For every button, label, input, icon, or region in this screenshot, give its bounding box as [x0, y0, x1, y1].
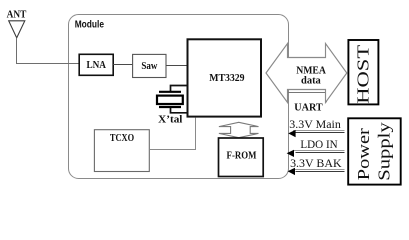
UART shadow box lines: [288, 93, 327, 103]
svg-text:3.3V BAK: 3.3V BAK: [290, 156, 342, 170]
svg-text:Power: Power: [354, 128, 373, 180]
crystal bottom plate: [159, 106, 181, 108]
wire TCXO to MT3329: [149, 118, 195, 150]
amplifier LNA box: [79, 54, 113, 75]
HOST box: [348, 40, 378, 104]
wire Saw to MT3329: [166, 65, 188, 67]
svg-text:MT3329: MT3329: [209, 72, 245, 84]
svg-text:TCXO: TCXO: [110, 133, 134, 144]
net 3.3V Main wire: [293, 130, 345, 132]
IC MT3329 box: [188, 39, 262, 116]
svg-text:LDO IN: LDO IN: [300, 137, 338, 151]
svg-text:Module: Module: [75, 20, 105, 31]
svg-text:F-ROM: F-ROM: [227, 151, 257, 162]
LDO IN arrowhead: [287, 150, 294, 157]
svg-text:Saw: Saw: [141, 61, 158, 72]
crystal top plate: [159, 91, 181, 93]
svg-text:X’tal: X’tal: [158, 115, 182, 126]
module outline: [69, 15, 289, 179]
SAW filter box: [133, 54, 166, 77]
svg-text:ANT: ANT: [7, 9, 27, 20]
Power Supply box: [348, 118, 401, 184]
3.3V Main arrowhead: [288, 130, 295, 137]
antenna symbol: [9, 21, 25, 38]
svg-text:data: data: [301, 75, 322, 86]
svg-text:3.3V Main: 3.3V Main: [289, 117, 341, 131]
bus arrow MT3329 to F-ROM: [219, 122, 259, 137]
svg-text:HOST: HOST: [353, 44, 372, 104]
net 3.3V BAK wire: [293, 169, 345, 171]
3.3V BAK arrowhead: [288, 168, 295, 175]
wire antenna to LNA: [17, 38, 80, 64]
crystal body: [157, 96, 183, 104]
svg-text:UART: UART: [294, 102, 323, 114]
bus arrow NMEA data module to HOST: [266, 44, 347, 103]
wire LNA to Saw: [113, 64, 132, 66]
oscillator TCXO box: [94, 130, 149, 172]
svg-text:LNA: LNA: [86, 60, 106, 71]
svg-text:Supply: Supply: [374, 122, 393, 181]
memory F-ROM box: [219, 138, 264, 177]
net LDO IN wire: [293, 150, 345, 152]
crystal X'tal leads to MT3329: [171, 86, 188, 113]
